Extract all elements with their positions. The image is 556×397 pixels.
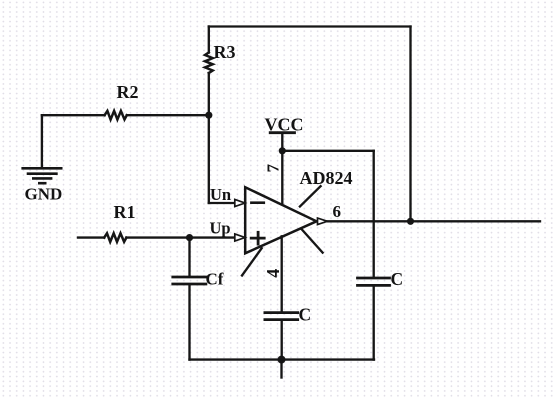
wire feedback vertical right	[409, 27, 411, 222]
svg-text:C: C	[299, 305, 312, 325]
svg-text:R3: R3	[214, 42, 236, 62]
wire C right bottom lead	[373, 286, 375, 360]
svg-text:VCC: VCC	[265, 115, 304, 135]
svg-text:R2: R2	[117, 82, 139, 102]
capacitor C right	[358, 278, 390, 285]
op-amp U1 triangle	[245, 187, 316, 253]
op-amp plus sign	[251, 232, 264, 244]
svg-text:7: 7	[263, 163, 282, 172]
arrow Un input	[235, 199, 245, 206]
wire Cf bottom lead	[188, 284, 190, 359]
capacitor C middle	[265, 313, 298, 320]
arrow output pin 6	[318, 218, 328, 225]
wire inverting input vertical	[208, 115, 210, 203]
resistor R3	[205, 53, 213, 74]
wire bottom rail	[190, 358, 375, 360]
op-amp lower-right slash	[301, 229, 323, 253]
resistor R1	[104, 233, 126, 242]
node R2-R3 junction	[205, 112, 212, 119]
svg-text:Un: Un	[210, 185, 231, 204]
AD824 leader line	[300, 186, 321, 206]
op-amp minus sign	[251, 201, 263, 204]
wire inverting input horizontal	[209, 202, 235, 204]
wire top feedback horizontal	[209, 25, 411, 27]
wire right branch vertical	[373, 151, 375, 277]
node bottom junction	[278, 356, 286, 364]
svg-text:R1: R1	[114, 202, 136, 222]
wire R1 right segment	[126, 236, 235, 238]
node Up junction	[186, 234, 193, 241]
wire C middle bottom lead	[281, 320, 283, 360]
wire R2 left segment	[42, 114, 105, 116]
svg-text:6: 6	[333, 202, 342, 221]
wire output	[327, 220, 540, 222]
capacitor Cf	[173, 277, 206, 284]
wire R3 top lead	[208, 27, 210, 53]
node VCC junction	[279, 147, 286, 154]
arrow Up input	[235, 234, 245, 241]
svg-text:4: 4	[263, 269, 283, 278]
wire R1 left segment	[78, 236, 104, 238]
wire VCC to right branch	[282, 150, 373, 152]
wire bottom stub	[280, 360, 282, 378]
op-amp lower-left slash	[242, 248, 262, 275]
resistor R2	[105, 111, 127, 120]
wire ground drop	[41, 115, 43, 167]
svg-text:C: C	[391, 269, 404, 289]
svg-text:Up: Up	[210, 219, 231, 238]
ground	[23, 168, 62, 183]
wire R3 bottom lead	[208, 73, 210, 115]
node output junction	[407, 218, 414, 225]
svg-text:AD824: AD824	[300, 168, 353, 188]
VCC terminal bar	[270, 131, 294, 134]
svg-text:GND: GND	[25, 185, 63, 204]
wire R2 right segment	[127, 114, 209, 116]
pin 4 lead	[281, 236, 283, 311]
wire Cf top lead	[188, 238, 190, 277]
pin 7 lead	[281, 133, 283, 203]
svg-text:Cf: Cf	[206, 270, 224, 289]
